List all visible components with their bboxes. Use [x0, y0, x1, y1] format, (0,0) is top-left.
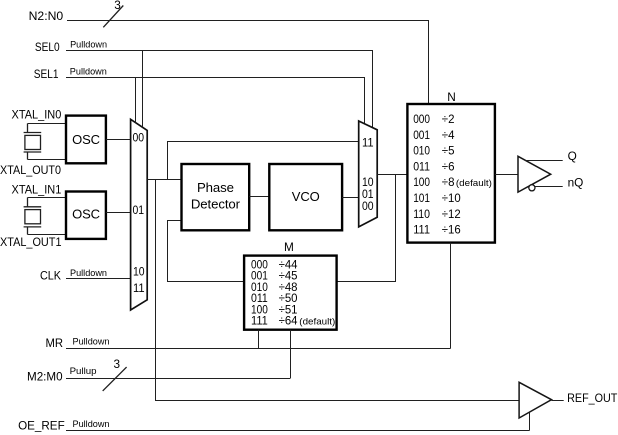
wire divider N to output buffer — [495, 174, 518, 176]
wire phase detector to VCO — [249, 196, 269, 198]
crystal X1 — [24, 198, 42, 235]
wire XTAL_OUT1 from crystal to OSC1 — [28, 234, 67, 236]
svg-text:÷64: ÷64 — [279, 314, 298, 328]
svg-text:OE_REF: OE_REF — [18, 418, 65, 432]
svg-text:OSC: OSC — [72, 132, 100, 147]
N ratio row 101 — [413, 191, 461, 205]
N ratio row 000 — [413, 112, 455, 126]
svg-text:÷8: ÷8 — [442, 175, 455, 189]
phase detector U1 — [182, 164, 250, 230]
svg-text:CLK: CLK — [40, 268, 61, 282]
svg-text:010: 010 — [413, 144, 430, 158]
oscillator OSC0 — [66, 116, 106, 164]
M ratio row 111 default — [251, 314, 335, 328]
VCO U2 — [269, 164, 342, 230]
N ratio row 110 — [413, 207, 461, 221]
svg-text:Phase: Phase — [197, 180, 234, 195]
svg-text:XTAL_IN0: XTAL_IN0 — [12, 108, 62, 122]
wire M2:M0 to divider M select — [290, 330, 292, 379]
wire divider N reset stub — [450, 243, 452, 349]
svg-text:N2:N0: N2:N0 — [29, 9, 64, 23]
svg-text:Q: Q — [568, 149, 577, 163]
svg-text:00: 00 — [133, 131, 145, 145]
svg-text:10: 10 — [133, 265, 145, 279]
wire XTAL_IN0 to OSC0 — [28, 123, 67, 125]
wire CLK to mux input 10 — [66, 278, 131, 280]
svg-text:111: 111 — [413, 223, 430, 237]
wire XTAL_IN1 to OSC1 — [28, 197, 67, 199]
REF_OUT buffer — [519, 382, 551, 418]
svg-text:÷16: ÷16 — [442, 223, 461, 237]
svg-text:÷12: ÷12 — [442, 207, 461, 221]
svg-text:Pulldown: Pulldown — [70, 40, 107, 50]
output mux PLL bypass select — [359, 121, 378, 227]
svg-text:111: 111 — [251, 314, 268, 328]
N ratio row 010 — [413, 144, 455, 158]
M ratio row 011 — [251, 291, 298, 305]
M ratio row 100 — [251, 302, 298, 316]
svg-text:Pullup: Pullup — [70, 366, 97, 376]
svg-text:00: 00 — [362, 199, 374, 213]
svg-text:VCO: VCO — [292, 189, 320, 204]
svg-text:XTAL_OUT1: XTAL_OUT1 — [0, 235, 62, 249]
oscillator OSC1 — [66, 192, 106, 239]
N ratio row 011 — [413, 159, 455, 173]
svg-text:011: 011 — [413, 159, 430, 173]
svg-text:nQ: nQ — [568, 176, 584, 190]
M ratio row 001 — [251, 269, 298, 283]
wire MR to divider M — [258, 330, 260, 349]
svg-text:11: 11 — [133, 281, 145, 295]
wire VCO output to output mux — [342, 197, 359, 199]
svg-text:(default): (default) — [299, 317, 335, 328]
svg-text:11: 11 — [362, 135, 374, 149]
wire SEL0 to mux selects — [66, 51, 373, 129]
svg-text:100: 100 — [413, 175, 430, 189]
output buffer Q nQ — [518, 156, 551, 192]
svg-text:(default): (default) — [456, 178, 492, 189]
wire OE_REF — [66, 430, 530, 432]
wire SEL0 branch to input mux select — [142, 51, 144, 128]
svg-text:OSC: OSC — [72, 206, 100, 221]
svg-text:÷2: ÷2 — [442, 112, 455, 126]
svg-text:Pulldown: Pulldown — [70, 268, 107, 278]
bus slash M2:M0 — [103, 367, 127, 391]
svg-text:000: 000 — [413, 112, 430, 126]
divider N box — [407, 104, 495, 243]
svg-text:101: 101 — [413, 191, 430, 205]
svg-text:REF_OUT: REF_OUT — [567, 391, 617, 405]
svg-text:110: 110 — [413, 207, 430, 221]
N ratio row 100 default — [413, 175, 492, 189]
svg-text:÷5: ÷5 — [442, 144, 455, 158]
wire SEL1 branch to input mux select — [135, 78, 137, 123]
svg-text:Pulldown: Pulldown — [73, 419, 110, 429]
wire SEL1 to mux selects — [66, 78, 365, 125]
svg-text:SEL1: SEL1 — [34, 67, 59, 81]
svg-text:÷6: ÷6 — [442, 159, 455, 173]
svg-text:01: 01 — [133, 203, 145, 217]
wire XTAL_OUT0 from crystal to OSC0 — [28, 159, 67, 161]
svg-text:M: M — [284, 240, 294, 254]
svg-text:M2:M0: M2:M0 — [27, 369, 63, 383]
wire REF_OUT output — [552, 400, 564, 402]
wire output mux to divider N — [377, 174, 407, 176]
wire divider M feedback to phase detector — [168, 221, 245, 282]
svg-text:÷4: ÷4 — [442, 128, 455, 142]
M ratio row 010 — [251, 280, 298, 294]
divider M box — [244, 256, 337, 330]
crystal X0 — [24, 124, 42, 160]
svg-text:MR: MR — [46, 336, 64, 350]
svg-text:3: 3 — [114, 0, 121, 12]
svg-text:Pulldown: Pulldown — [70, 67, 107, 77]
svg-text:Detector: Detector — [191, 196, 241, 211]
svg-text:3: 3 — [114, 357, 121, 371]
wire M2:M0 — [66, 378, 290, 380]
svg-text:Pulldown: Pulldown — [73, 336, 110, 346]
wire MR — [66, 348, 451, 350]
wire OSC0 output to mux input 00 — [106, 139, 131, 141]
wire Q output — [525, 160, 562, 162]
bus slash N2:N0 — [103, 6, 123, 28]
input mux reference select — [131, 119, 148, 310]
N ratio row 001 — [413, 128, 455, 142]
wire PLL bypass to output mux input 11 — [168, 142, 359, 180]
wire N2:N0 to divider N select — [67, 21, 429, 104]
wire feedback tap to divider M — [337, 175, 396, 282]
inversion bubble nQ — [529, 185, 535, 191]
svg-text:÷10: ÷10 — [442, 191, 461, 205]
M ratio row 000 — [251, 258, 298, 272]
svg-text:SEL0: SEL0 — [35, 40, 60, 54]
wire OE_REF to buffer enable — [529, 412, 531, 430]
N ratio row 111 — [413, 223, 461, 237]
wire nQ output — [535, 186, 563, 188]
wire reference feed to REF_OUT buffer — [156, 180, 520, 401]
wire OSC1 output to mux input 01 — [106, 212, 131, 214]
svg-text:001: 001 — [413, 128, 430, 142]
svg-text:N: N — [447, 90, 456, 104]
svg-text:XTAL_OUT0: XTAL_OUT0 — [0, 163, 61, 177]
svg-text:XTAL_IN1: XTAL_IN1 — [12, 183, 62, 197]
wire input mux output to phase detector — [147, 179, 181, 181]
